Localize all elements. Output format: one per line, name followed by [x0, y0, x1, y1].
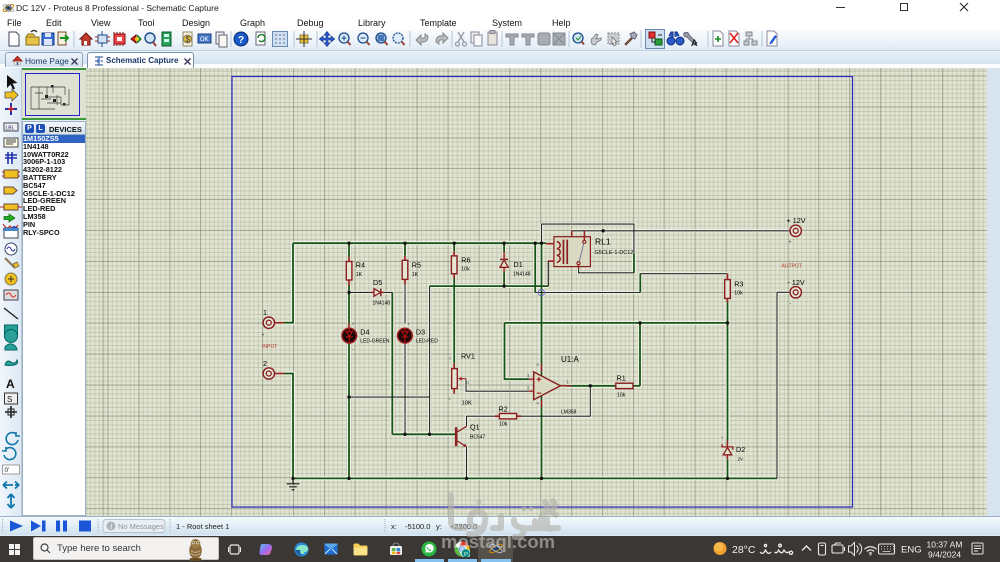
wrench A: [684, 32, 697, 45]
watermark mostaql.com: [441, 531, 681, 553]
overview window: [22, 68, 86, 120]
wire horiz y397: [349, 396, 430, 398]
del doc: [729, 31, 739, 46]
svg-text:R1: R1: [617, 374, 626, 383]
svg-text:28°C: 28°C: [732, 544, 756, 556]
svg-text:x:: x:: [391, 522, 397, 531]
terminal +12V: [787, 216, 806, 246]
svg-text:+: +: [789, 240, 792, 246]
edit doc: [767, 31, 777, 46]
svg-text:9/4/2024: 9/4/2024: [928, 550, 961, 560]
wire R1 right: [639, 323, 641, 386]
wire D3 vert: [404, 284, 406, 434]
svg-text:D3: D3: [416, 328, 425, 337]
svg-text:8: 8: [537, 362, 540, 367]
watermark arabic: [435, 485, 665, 562]
svg-text:10:37 AM: 10:37 AM: [927, 540, 963, 550]
svg-text:OK: OK: [200, 37, 209, 43]
wire D5 row: [349, 291, 392, 293]
diode D5: [371, 278, 390, 307]
Home Page tab: [5, 52, 83, 67]
schematic part: [98, 35, 107, 43]
svg-text:S: S: [7, 395, 12, 404]
wire casings: [284, 243, 777, 478]
terminal 2: [262, 359, 285, 390]
svg-text:10K: 10K: [462, 401, 472, 407]
svg-text:D1: D1: [514, 260, 523, 269]
whatsapp icon: [421, 541, 437, 557]
svg-text:LED-GREEN: LED-GREEN: [360, 339, 390, 345]
LED D3: [398, 322, 439, 352]
svg-text:A: A: [691, 38, 698, 48]
wire R4 branch: [348, 243, 350, 478]
devices header: [22, 121, 86, 135]
svg-text:x: x: [721, 435, 723, 440]
relay RL1: [546, 231, 633, 286]
netlist: [216, 32, 224, 44]
home: [80, 33, 92, 45]
tray: [705, 536, 1000, 562]
resistor R2: [495, 405, 521, 428]
copy: [471, 32, 479, 43]
resistor R6: [451, 251, 470, 278]
store icon: [389, 542, 403, 556]
wire R5 top: [404, 243, 406, 256]
svg-text:LED-RED: LED-RED: [416, 339, 438, 345]
zoom in: [339, 33, 349, 43]
resistor R5: [402, 256, 421, 285]
block icons: [506, 33, 565, 45]
svg-text:1N4148: 1N4148: [513, 272, 531, 278]
svg-text:- 12V: - 12V: [788, 278, 805, 287]
search box: [33, 537, 219, 560]
mail icon: [324, 543, 338, 555]
wire vert x430: [429, 286, 431, 434]
svg-text:2: 2: [449, 356, 452, 361]
zener D2: [721, 435, 745, 462]
svg-text:A: A: [6, 377, 15, 391]
pick region: [608, 33, 619, 44]
wire bottom rail: [293, 477, 777, 479]
svg-text:ENG: ENG: [901, 545, 922, 556]
import: [58, 32, 66, 45]
app icon: [2, 2, 15, 15]
wire +12V net: [572, 230, 790, 232]
wire RV1 wiper to pin2: [466, 379, 529, 392]
svg-text:LM358: LM358: [561, 410, 577, 416]
svg-text:BC547: BC547: [470, 435, 486, 441]
svg-text:i: i: [110, 522, 112, 531]
wire vert B: [541, 243, 543, 478]
wire R3 down D2: [727, 303, 729, 479]
ERC: [198, 34, 211, 43]
resistor R1: [616, 374, 633, 399]
svg-text:RL1: RL1: [595, 237, 611, 247]
svg-text:3: 3: [467, 380, 470, 385]
svg-text:3: 3: [527, 374, 530, 379]
svg-text:R4: R4: [356, 261, 365, 270]
svg-text:1N4148: 1N4148: [373, 301, 391, 307]
diode D1: [500, 252, 531, 278]
open: [26, 37, 39, 45]
LED D4: [342, 322, 390, 352]
svg-text:-5100.0: -5100.0: [405, 522, 430, 531]
svg-text:2: 2: [527, 386, 530, 391]
svg-text:R3: R3: [734, 280, 743, 289]
hammer: [625, 38, 632, 45]
terminal -12V: [782, 264, 805, 308]
wire Q1 base: [392, 433, 455, 435]
wire term2 down: [284, 374, 293, 479]
start button: [9, 544, 20, 555]
terminal 1: [262, 308, 285, 350]
svg-text:D5: D5: [373, 278, 382, 287]
svg-text:RV1: RV1: [461, 352, 475, 361]
wire term1 to rail: [284, 243, 293, 323]
potentiometer RV1: [449, 352, 475, 407]
svg-text:+: +: [407, 322, 410, 327]
binoculars: [667, 32, 684, 45]
origin: [300, 35, 308, 43]
taskview icon: [228, 543, 241, 556]
svg-text:1: 1: [567, 380, 570, 385]
redo: [436, 33, 448, 44]
zoom out: [358, 33, 368, 43]
junction dots: [291, 229, 729, 480]
sim buttons: [0, 516, 480, 536]
undo: [416, 34, 428, 45]
wire vert A: [534, 243, 536, 292]
svg-text:-: -: [262, 384, 264, 390]
explorer: [162, 32, 171, 46]
ground: [287, 478, 300, 489]
svg-text:1: 1: [449, 396, 452, 401]
wire D1 branch: [503, 243, 505, 286]
wire opamp top net: [505, 322, 728, 324]
resistor R3: [725, 274, 744, 303]
wire R6 to RV1: [453, 243, 455, 363]
svg-text:INPOT: INPOT: [262, 344, 277, 350]
svg-text:No Messages: No Messages: [118, 522, 164, 531]
svg-text:U1:A: U1:A: [561, 355, 579, 364]
pcb: [114, 34, 125, 44]
svg-text:4: 4: [537, 401, 540, 406]
owl image in search box: [183, 537, 208, 561]
wire opamp out: [566, 385, 640, 387]
zoom all: [393, 33, 403, 43]
op-amp U1:A: [527, 355, 579, 416]
svg-text:D2: D2: [736, 445, 745, 454]
transistor Q1: [456, 423, 485, 447]
wizard pressed: [646, 30, 665, 49]
svg-text:-: -: [407, 347, 409, 352]
hierarchy: [744, 32, 757, 45]
3d: [131, 35, 136, 43]
add doc: [713, 31, 723, 46]
svg-text:D4: D4: [360, 328, 369, 337]
save: [42, 33, 54, 45]
svg-text:R5: R5: [412, 261, 421, 270]
svg-text:+: +: [352, 322, 355, 327]
wire relay contact box: [542, 224, 634, 273]
svg-text:R2: R2: [499, 405, 508, 414]
zoom region: [376, 33, 386, 43]
wire mid horizontal: [430, 285, 549, 287]
paste: [488, 32, 497, 45]
svg-text:0': 0': [5, 467, 10, 474]
chrome icon: [454, 541, 470, 557]
window buttons: [836, 7, 845, 8]
svg-text:+: +: [262, 333, 265, 339]
wire -12V net: [777, 292, 790, 478]
svg-text:-: -: [352, 347, 354, 352]
Schematic Capture tab (active): [87, 52, 194, 69]
edge icon: [294, 542, 309, 557]
svg-text:10k: 10k: [499, 422, 508, 428]
svg-text:1K: 1K: [412, 272, 419, 278]
sheet border: [232, 77, 853, 508]
hand: [591, 34, 601, 45]
svg-text:G5CLE-1-DC12: G5CLE-1-DC12: [595, 250, 634, 256]
new: [9, 32, 19, 46]
grid pressed: [273, 32, 288, 47]
junction ring (no-connect marker): [538, 289, 544, 295]
svg-text:LBL: LBL: [6, 126, 15, 132]
svg-text:AUTPOT: AUTPOT: [782, 264, 802, 270]
svg-text:10k: 10k: [617, 393, 626, 399]
svg-text:10k: 10k: [461, 267, 470, 273]
wire pin3: [505, 323, 529, 379]
svg-text:2V: 2V: [738, 457, 745, 462]
svg-text:Q1: Q1: [470, 423, 480, 432]
svg-text:?: ?: [238, 35, 244, 46]
BOM: [183, 32, 192, 46]
svg-text:-: -: [790, 301, 792, 307]
wire top rail: [293, 242, 546, 244]
resistor R4: [346, 257, 365, 286]
wire Q1 emitter down: [466, 447, 468, 479]
gerber: [145, 33, 155, 43]
pan: [319, 32, 334, 47]
svg-text:1: 1: [263, 308, 267, 317]
explorer icon: [353, 543, 368, 556]
svg-text:R6: R6: [461, 256, 470, 265]
help: [234, 32, 248, 46]
wire relay to R3 vert: [634, 254, 640, 293]
device list: [22, 135, 86, 516]
svg-text:1 - Root sheet 1: 1 - Root sheet 1: [176, 522, 229, 531]
svg-text:1K: 1K: [356, 272, 363, 278]
copilot icon: [259, 542, 274, 557]
proteus taskbar tile (active): [478, 536, 513, 562]
refresh: [256, 32, 265, 45]
svg-text:2: 2: [263, 359, 267, 368]
svg-text:+ 12V: + 12V: [787, 216, 806, 225]
wire D5 down: [391, 292, 393, 434]
svg-text:$: $: [186, 35, 191, 44]
magnifier sm: [573, 33, 583, 43]
wire feedback R2: [467, 386, 591, 427]
cut: [458, 32, 464, 42]
wire R3 top link: [535, 274, 727, 293]
svg-text:10k: 10k: [734, 291, 743, 297]
